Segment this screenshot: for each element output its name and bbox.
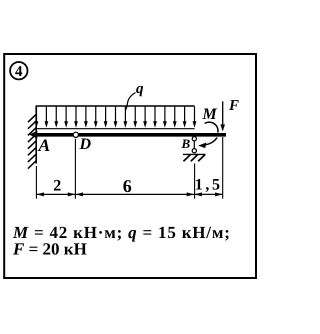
svg-text:1,5: 1,5 (195, 177, 223, 194)
svg-text:6: 6 (123, 176, 132, 196)
svg-text:q: q (136, 81, 144, 97)
svg-text:A: A (38, 135, 51, 155)
svg-text:F: F (228, 98, 239, 114)
svg-text:F = 20 кН: F = 20 кН (12, 240, 87, 259)
svg-text:2: 2 (53, 178, 61, 195)
svg-text:B: B (181, 136, 191, 151)
svg-text:4: 4 (15, 64, 23, 80)
svg-text:M: M (202, 106, 218, 123)
svg-text:D: D (79, 136, 92, 153)
